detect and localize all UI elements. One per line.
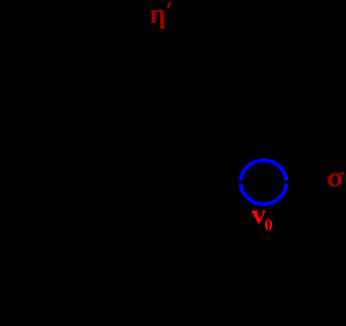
svg-text:0: 0: [264, 216, 273, 235]
horizontal streamline (black, covers circle at mid-height): [200, 181, 346, 184]
svg-text:σ: σ: [326, 161, 344, 192]
label eta-prime: [150, 0, 171, 30]
label sigma: [326, 161, 344, 192]
svg-text:η: η: [150, 0, 166, 30]
label v0: [251, 200, 273, 234]
sphere outline (blue circle): [241, 160, 287, 204]
